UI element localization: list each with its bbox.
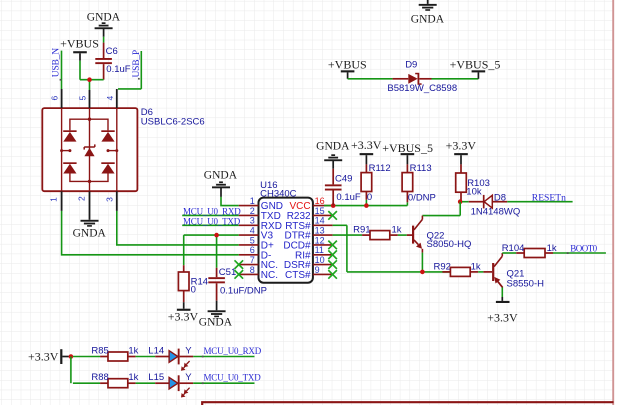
wire bbox=[140, 51, 142, 89]
no-connect pin8 bbox=[235, 270, 244, 279]
svg-text:R85: R85 bbox=[91, 345, 108, 356]
svg-text:11: 11 bbox=[315, 245, 324, 255]
svg-text:+3.3V: +3.3V bbox=[28, 350, 59, 364]
svg-text:USBLC6-2SC6: USBLC6-2SC6 bbox=[141, 116, 205, 127]
pin 5 (D6) bbox=[89, 90, 91, 108]
svg-text:6: 6 bbox=[250, 245, 255, 255]
svg-text:10: 10 bbox=[315, 255, 325, 265]
pin 10 (U16) bbox=[313, 264, 333, 266]
pin 3 (U16) bbox=[239, 224, 259, 226]
svg-text:0: 0 bbox=[367, 192, 372, 203]
ground GNDA (under C51) bbox=[216, 301, 218, 311]
svg-text:0/DNP: 0/DNP bbox=[408, 193, 436, 204]
pin 6 (D6) bbox=[61, 89, 63, 108]
diode-array D6 box bbox=[42, 108, 137, 191]
resistor R14 bbox=[178, 272, 189, 291]
svg-text:+VBUS: +VBUS bbox=[328, 57, 367, 71]
svg-text:MCU_U0_TXD: MCU_U0_TXD bbox=[204, 373, 262, 383]
svg-text:5: 5 bbox=[77, 95, 87, 100]
svg-text:R91: R91 bbox=[353, 225, 370, 236]
svg-text:2: 2 bbox=[250, 206, 255, 216]
power symbol +VBUS_5 (D9) bbox=[472, 70, 486, 72]
wire bbox=[193, 382, 254, 384]
power symbol GNDA (chip GND) bbox=[219, 181, 223, 183]
svg-text:2: 2 bbox=[76, 196, 86, 201]
svg-text:0.1uF: 0.1uF bbox=[106, 64, 130, 75]
svg-text:CH340C: CH340C bbox=[260, 189, 297, 200]
svg-text:R113: R113 bbox=[410, 163, 432, 174]
power symbol GNDA (above C49) bbox=[331, 154, 335, 156]
wire bbox=[478, 271, 483, 273]
junction (D6 top) bbox=[88, 118, 91, 121]
wire (USB D- net) bbox=[62, 211, 239, 255]
svg-text:R88: R88 bbox=[91, 372, 108, 383]
svg-text:5: 5 bbox=[250, 235, 255, 245]
svg-text:R104: R104 bbox=[502, 243, 525, 254]
svg-text:D9: D9 bbox=[405, 59, 417, 70]
pin 2 (U16) bbox=[239, 214, 259, 216]
node anchor (USB_P) bbox=[138, 78, 140, 80]
svg-text:R92: R92 bbox=[434, 262, 451, 273]
svg-text:USB_N: USB_N bbox=[52, 48, 62, 77]
svg-text:R112: R112 bbox=[369, 163, 391, 174]
capacitor C6 bbox=[95, 58, 112, 60]
svg-text:6: 6 bbox=[50, 95, 60, 100]
pin 1 (U16) bbox=[239, 205, 259, 207]
pin 16 (U16) bbox=[313, 205, 333, 207]
wire bbox=[79, 61, 81, 80]
wire bbox=[193, 356, 254, 358]
svg-text:MCU_U0_RXD: MCU_U0_RXD bbox=[204, 346, 262, 356]
svg-text:GNDA: GNDA bbox=[73, 227, 107, 239]
svg-text:9: 9 bbox=[315, 265, 320, 275]
svg-text:GNDA: GNDA bbox=[204, 170, 238, 182]
wire bbox=[459, 202, 461, 216]
svg-text:1k: 1k bbox=[128, 372, 138, 383]
pin 15 (U16) bbox=[313, 214, 333, 216]
svg-text:15: 15 bbox=[315, 206, 325, 216]
transistor Q22 S8050-HQ bbox=[407, 234, 412, 236]
resistor R103 bbox=[456, 173, 467, 192]
power symbol +VBUS (top-left) bbox=[73, 51, 87, 53]
resistor R113 bbox=[402, 173, 413, 192]
power symbol +3.3V (under Q21, inverted) bbox=[501, 297, 503, 301]
svg-text:14: 14 bbox=[315, 216, 325, 226]
pin 8 (U16) bbox=[239, 273, 259, 275]
wire (USB D+ net) bbox=[117, 211, 239, 245]
power symbol +3.3V (LED rail, sideways) bbox=[60, 349, 62, 364]
junction (RESET node) bbox=[458, 199, 463, 204]
svg-text:3: 3 bbox=[250, 216, 255, 226]
no-connect pin11 bbox=[328, 250, 337, 259]
svg-text:CTS#: CTS# bbox=[285, 270, 311, 281]
svg-text:1k: 1k bbox=[128, 345, 138, 356]
resistor R112 bbox=[361, 173, 372, 192]
svg-text:C6: C6 bbox=[106, 46, 118, 57]
diode D6-a (upper-left) bbox=[63, 130, 76, 132]
svg-text:16: 16 bbox=[315, 196, 325, 206]
diode D6-d (lower-right) bbox=[101, 162, 114, 164]
LED L14 bbox=[155, 356, 169, 358]
svg-text:BOOT0: BOOT0 bbox=[570, 243, 597, 253]
svg-text:+3.3V: +3.3V bbox=[446, 139, 477, 153]
svg-text:D8: D8 bbox=[494, 192, 506, 203]
svg-text:1: 1 bbox=[48, 197, 58, 202]
svg-text:+VBUS: +VBUS bbox=[60, 36, 99, 50]
svg-text:S8550-H: S8550-H bbox=[507, 278, 545, 289]
wire (D6 left tick) bbox=[62, 150, 70, 152]
node anchor (USB_N) bbox=[60, 79, 62, 81]
power symbol GNDA (analog ground, top-left) bbox=[102, 22, 106, 24]
svg-text:S8050-HQ: S8050-HQ bbox=[427, 239, 472, 250]
svg-text:1: 1 bbox=[250, 196, 255, 206]
svg-text:RESETn: RESETn bbox=[532, 192, 566, 203]
diode D6-c (upper-right) bbox=[101, 130, 114, 132]
svg-text:GNDA: GNDA bbox=[316, 141, 350, 153]
power symbol +3.3V (under R14, inverted) bbox=[183, 302, 185, 309]
svg-text:0.1uF/DNP: 0.1uF/DNP bbox=[220, 286, 267, 297]
svg-text:NC.: NC. bbox=[261, 270, 278, 281]
svg-text:MCU_U0_TXD: MCU_U0_TXD bbox=[183, 216, 241, 226]
no-connect pin10 bbox=[328, 260, 337, 269]
resistor R104 bbox=[524, 249, 545, 258]
wire/resistor row2 bbox=[73, 382, 100, 384]
junction (R112/VCC) bbox=[364, 203, 369, 208]
transistor Q21 S8550-H bbox=[483, 271, 492, 273]
svg-text:GNDA: GNDA bbox=[411, 14, 445, 26]
svg-text:3: 3 bbox=[104, 197, 114, 202]
wire bbox=[462, 201, 469, 203]
junction (C49/VCC) bbox=[331, 203, 336, 208]
svg-text:+VBUS_5: +VBUS_5 bbox=[450, 57, 501, 71]
wire (VCC net) bbox=[324, 205, 407, 207]
wire bbox=[398, 234, 407, 236]
svg-text:GNDA: GNDA bbox=[199, 317, 233, 329]
wire (DTR# to R91) bbox=[333, 234, 363, 236]
junction bbox=[87, 77, 92, 82]
pin 13 (U16) bbox=[313, 234, 333, 236]
power symbol +VBUS_5 (R113) bbox=[401, 153, 415, 155]
wire (D6 internal rails) bbox=[61, 108, 63, 191]
no-connect pin12 bbox=[328, 241, 337, 250]
wire (MCU_U0_TXD) bbox=[182, 224, 239, 226]
svg-text:GNDA: GNDA bbox=[87, 11, 121, 23]
svg-text:8: 8 bbox=[250, 265, 255, 275]
wire (V3 net) bbox=[184, 234, 239, 236]
sheet border (bottom-right frame) bbox=[202, 402, 613, 405]
svg-text:+3.3V: +3.3V bbox=[487, 311, 518, 325]
wire/resistor row1 bbox=[73, 356, 100, 358]
resistor R92 bbox=[450, 267, 470, 276]
svg-text:+VBUS_5: +VBUS_5 bbox=[382, 141, 433, 155]
wire bbox=[501, 287, 503, 297]
power symbol +VBUS (D9) bbox=[341, 70, 355, 72]
svg-text:MCU_U0_RXD: MCU_U0_RXD bbox=[183, 207, 241, 217]
svg-text:4: 4 bbox=[250, 226, 255, 236]
pin 4 (U16) bbox=[239, 234, 259, 236]
wire bbox=[89, 80, 91, 90]
svg-text:C49: C49 bbox=[335, 174, 352, 185]
wire bbox=[103, 37, 105, 43]
pin 5 (U16) bbox=[239, 244, 259, 246]
junction (D6 bottom) bbox=[88, 180, 91, 183]
power symbol +3.3V (R112) bbox=[360, 153, 374, 155]
wire bbox=[61, 51, 63, 89]
svg-text:+3.3V: +3.3V bbox=[168, 310, 199, 324]
diode D9 B5819W bbox=[393, 78, 409, 80]
junction (LED rail) bbox=[69, 354, 74, 359]
svg-text:L14: L14 bbox=[148, 345, 164, 356]
wire (rail down) bbox=[70, 357, 72, 384]
power symbol +3.3V (R103) bbox=[454, 153, 468, 155]
ground GNDA (under D6) bbox=[81, 220, 99, 222]
op-amp U16 body bbox=[259, 198, 313, 283]
svg-text:B5819W_C8598: B5819W_C8598 bbox=[387, 83, 457, 94]
LED L15 bbox=[155, 382, 169, 384]
svg-text:7: 7 bbox=[250, 255, 255, 265]
svg-text:C51: C51 bbox=[219, 267, 236, 278]
pin 2 (D6) bbox=[89, 191, 91, 220]
svg-text:4: 4 bbox=[105, 95, 115, 100]
junction (Q22 emitter node) bbox=[420, 270, 425, 275]
node anchor (BOOT0) bbox=[567, 252, 569, 254]
wire bbox=[421, 253, 423, 272]
wire (MCU_U0_RXD) bbox=[182, 214, 239, 216]
wire (RESETn net) bbox=[507, 201, 572, 203]
node anchor (MCU_U0_RXD) bbox=[202, 356, 204, 358]
svg-text:0: 0 bbox=[191, 285, 196, 296]
pin 1 (D6) bbox=[61, 191, 63, 211]
wire bbox=[348, 78, 393, 80]
no-connect pin7 bbox=[235, 260, 244, 269]
svg-text:12: 12 bbox=[315, 235, 325, 245]
pin 7 (U16) bbox=[239, 264, 259, 266]
wire (D6 bottom bracket) bbox=[70, 173, 108, 182]
svg-text:1N4148WQ: 1N4148WQ bbox=[471, 207, 521, 218]
pin 3 (D6) bbox=[116, 191, 118, 211]
svg-text:10k: 10k bbox=[466, 187, 482, 198]
pin 11 (U16) bbox=[313, 254, 333, 256]
pin 6 (U16) bbox=[239, 254, 259, 256]
capacitor C49 bbox=[325, 184, 342, 186]
pin 12 (U16) bbox=[313, 244, 333, 246]
no-connect pin9 bbox=[328, 270, 337, 279]
pin 14 (U16) bbox=[313, 224, 333, 226]
wire bbox=[502, 252, 516, 254]
node anchor (MCU_U0_TXD) bbox=[202, 382, 204, 384]
power symbol GNDA (top-middle) bbox=[427, 0, 429, 4]
resistor R91 bbox=[370, 231, 390, 240]
svg-text:Y: Y bbox=[185, 372, 192, 383]
wire (BOOT0 net) bbox=[553, 252, 606, 254]
diode D8 1N4148 bbox=[469, 201, 484, 203]
wire (D6 right tick) bbox=[108, 150, 117, 152]
sheet margin (right) bbox=[614, 0, 618, 405]
diode D6-b (lower-left) bbox=[63, 162, 76, 164]
pin 9 (U16) bbox=[313, 273, 333, 275]
svg-text:1k: 1k bbox=[471, 262, 481, 273]
wire (D6 top bracket) bbox=[70, 119, 108, 130]
junction (V3/C51) bbox=[214, 233, 219, 238]
svg-text:1k: 1k bbox=[392, 225, 402, 236]
sheet border (right) bbox=[612, 0, 614, 405]
pin 4 (D6) bbox=[116, 89, 118, 108]
svg-text:+3.3V: +3.3V bbox=[351, 138, 382, 152]
svg-text:13: 13 bbox=[315, 226, 325, 236]
wire (RTS# to Q22 area) bbox=[333, 224, 347, 226]
wire bbox=[432, 78, 479, 80]
zener D6-z (center) bbox=[84, 146, 95, 148]
svg-text:L15: L15 bbox=[148, 372, 164, 383]
wire bbox=[221, 197, 239, 206]
no-connect pin15 bbox=[328, 211, 337, 220]
svg-text:Y: Y bbox=[185, 345, 192, 356]
capacitor C51 bbox=[208, 277, 225, 279]
svg-text:0.1uF: 0.1uF bbox=[336, 192, 360, 203]
